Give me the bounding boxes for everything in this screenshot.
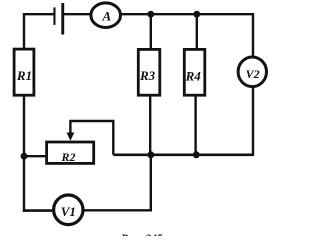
svg-text:V2: V2: [246, 67, 260, 81]
svg-text:R4: R4: [185, 69, 202, 84]
svg-text:R2: R2: [60, 150, 75, 164]
wire R3 bottom: [149, 95, 151, 155]
wire R4 bottom: [194, 95, 196, 155]
R2 wiper arrowhead: [67, 133, 75, 141]
svg-text:Рис. 245: Рис. 245: [121, 233, 163, 236]
svg-text:V1: V1: [61, 204, 76, 219]
node: junction dot bottom R4: [193, 151, 200, 158]
resistor R1: [14, 49, 34, 95]
voltmeter V2: [238, 57, 266, 87]
node: junction dot top R4: [193, 11, 200, 18]
svg-text:R1: R1: [16, 68, 32, 83]
resistor R3: [138, 49, 160, 95]
svg-text:A: A: [101, 8, 111, 23]
wire left corner to V1: [23, 209, 54, 212]
wire bottom horizontal: [113, 154, 253, 157]
battery GB1 long plate: [61, 3, 64, 35]
node: junction dot bottom R3/V1: [147, 151, 154, 158]
svg-text:R3: R3: [139, 68, 156, 83]
ammeter A: [91, 3, 121, 28]
wire V1 to bottom junction: [83, 155, 151, 211]
wire battery to ammeter: [64, 13, 92, 15]
wire R4 top stub: [196, 14, 198, 48]
wire junction to R2: [24, 155, 47, 157]
wire V2 bottom: [252, 88, 254, 157]
wire R1 down left branch: [23, 96, 25, 212]
wire ammeter to top-right corner: [121, 14, 254, 57]
voltmeter V1: [54, 195, 83, 225]
node: junction dot left branch: [21, 153, 28, 160]
resistor R4: [184, 49, 205, 95]
wire R2 wiper arm: [70, 121, 113, 155]
node: junction dot top R3: [147, 11, 154, 18]
wire R3 top stub: [150, 14, 152, 48]
battery GB1 short plate: [53, 7, 55, 25]
rheostat R2: [47, 142, 94, 163]
wire top-left: battery to left corner and down to R1: [24, 14, 54, 48]
